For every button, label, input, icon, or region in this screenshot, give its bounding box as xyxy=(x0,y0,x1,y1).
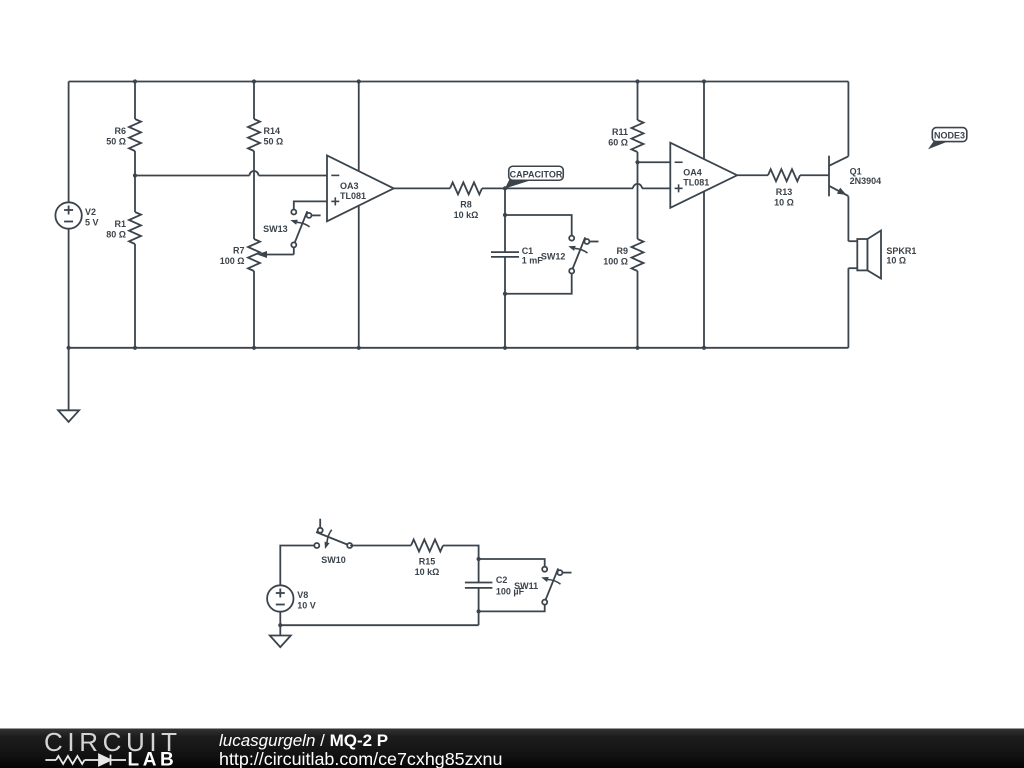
switch SW13 xyxy=(290,210,320,248)
svg-text:10 kΩ: 10 kΩ xyxy=(454,210,479,220)
svg-text:5 V: 5 V xyxy=(85,217,99,227)
op-amp OA3 xyxy=(327,156,394,222)
svg-text:V8: V8 xyxy=(297,590,308,600)
junction R11/R9 divider node xyxy=(635,160,639,164)
wire OA3 out xyxy=(394,187,450,189)
node CAPACITOR junction xyxy=(503,186,507,190)
resistor R9 xyxy=(632,239,644,271)
wire ground stub xyxy=(68,348,70,411)
wire R6/R1 rail xyxy=(134,82,136,120)
wire OA4 out xyxy=(737,174,768,176)
svg-text:C2: C2 xyxy=(496,575,508,585)
voltage source V2 xyxy=(55,202,81,228)
junction C1 bottom xyxy=(503,292,507,296)
svg-text:NODE3: NODE3 xyxy=(934,131,965,141)
junction bottom rail / C1 branch xyxy=(503,346,507,350)
capacitor C2 xyxy=(465,582,493,584)
junction top rail / R14 rail xyxy=(252,79,256,83)
junction bottom rail / R7 rail xyxy=(252,346,256,350)
svg-text:LAB: LAB xyxy=(128,750,178,768)
svg-text:50 Ω: 50 Ω xyxy=(106,137,126,147)
ground 2 xyxy=(270,636,291,648)
svg-text:CAPACITOR: CAPACITOR xyxy=(510,169,563,179)
svg-text:R6: R6 xyxy=(114,126,126,136)
wire SW13 to OA3 plus xyxy=(294,201,327,209)
logo resistor-diode art xyxy=(45,755,126,766)
svg-text:80 Ω: 80 Ω xyxy=(106,229,126,239)
svg-text:lucasgurgeln / MQ-2 P: lucasgurgeln / MQ-2 P xyxy=(219,731,388,750)
junction top rail / OA4 rail xyxy=(702,79,706,83)
switch SW11 xyxy=(541,567,571,605)
svg-text:V2: V2 xyxy=(85,207,96,217)
speaker SPKR1 xyxy=(848,240,857,242)
svg-text:R11: R11 xyxy=(612,127,628,137)
junction bottom rail / OA3 rail xyxy=(357,346,361,350)
svg-text:OA3: OA3 xyxy=(340,181,359,191)
wire to OA4 minus xyxy=(638,161,671,163)
svg-text:R9: R9 xyxy=(616,246,628,256)
svg-text:SW11: SW11 xyxy=(514,581,538,591)
wire bottom return xyxy=(280,624,478,626)
node NODE3 flag xyxy=(928,128,967,150)
wire ground stub 2 xyxy=(279,625,281,635)
wire left rail lower xyxy=(68,229,70,348)
switch SW10 xyxy=(314,519,352,549)
wire node to OA4 plus xyxy=(505,187,633,189)
wire C1 branch xyxy=(504,188,506,252)
svg-text:R14: R14 xyxy=(264,126,281,136)
junction top rail / R6 rail xyxy=(133,79,137,83)
svg-text:10 V: 10 V xyxy=(297,600,316,610)
resistor R15 xyxy=(411,540,443,552)
switch SW12 xyxy=(568,236,598,274)
svg-text:OA4: OA4 xyxy=(683,168,702,178)
wire rail through OA3 xyxy=(358,82,360,348)
junction bottom rail / V2 rail xyxy=(67,346,71,350)
svg-text:R8: R8 xyxy=(460,199,472,209)
svg-text:10 kΩ: 10 kΩ xyxy=(415,567,440,577)
wire R15 to C2 xyxy=(443,546,479,583)
svg-text:TL081: TL081 xyxy=(683,178,709,188)
junction bottom rail / OA4 rail xyxy=(702,346,706,350)
wire R8 to node xyxy=(482,187,505,189)
svg-text:100 Ω: 100 Ω xyxy=(220,256,245,266)
wire R14/R7 rail xyxy=(253,82,255,120)
junction bottom rail / R9 rail xyxy=(635,346,639,350)
junction C1 top xyxy=(503,213,507,217)
junction C2 bottom xyxy=(477,609,481,613)
wire R13 to Q1 xyxy=(800,174,829,176)
wire SW11 loop xyxy=(479,559,545,569)
svg-text:50 Ω: 50 Ω xyxy=(264,137,284,147)
svg-text:TL081: TL081 xyxy=(340,191,366,201)
wire mid (to OA3 minus) xyxy=(135,175,250,177)
svg-text:R13: R13 xyxy=(776,187,793,197)
svg-text:SW12: SW12 xyxy=(541,251,566,261)
resistor R11 xyxy=(632,120,644,152)
svg-text:SW13: SW13 xyxy=(263,224,288,234)
svg-text:R15: R15 xyxy=(419,557,436,567)
junction top rail / OA3 rail xyxy=(357,79,361,83)
svg-text:10 Ω: 10 Ω xyxy=(774,197,794,207)
transistor Q1 xyxy=(828,156,830,197)
resistor R1 xyxy=(129,212,141,244)
op-amp OA4 xyxy=(670,143,737,208)
resistor R14 xyxy=(248,119,260,151)
junction bottom rail / R1 rail xyxy=(133,346,137,350)
svg-text:C1: C1 xyxy=(522,246,534,256)
wire R7 wiper xyxy=(266,254,294,256)
junction V8 ground node xyxy=(278,623,282,627)
resistor R8 xyxy=(450,182,482,194)
junction C2 top xyxy=(477,557,481,561)
svg-text:100 Ω: 100 Ω xyxy=(603,257,628,267)
node CAPACITOR flag xyxy=(505,166,563,188)
ground xyxy=(58,410,79,422)
wire left rail upper xyxy=(68,82,70,203)
svg-text:R7: R7 xyxy=(233,246,245,256)
wire SW12 loop xyxy=(505,215,572,238)
wire SW10 to R15 xyxy=(350,545,411,547)
svg-text:2N3904: 2N3904 xyxy=(850,176,882,186)
wire bottom rail xyxy=(69,347,849,349)
wire rail through OA4 xyxy=(703,82,705,348)
junction R6/R1 divider node xyxy=(133,173,137,177)
svg-text:60 Ω: 60 Ω xyxy=(608,138,628,148)
wire top rail xyxy=(69,81,849,83)
svg-text:http://circuitlab.com/ce7cxhg8: http://circuitlab.com/ce7cxhg85zxnu xyxy=(219,749,502,768)
resistor R7 (pot) xyxy=(248,239,260,271)
svg-text:R1: R1 xyxy=(114,219,126,229)
svg-text:10 Ω: 10 Ω xyxy=(886,256,906,266)
svg-text:SW10: SW10 xyxy=(321,555,346,565)
resistor R13 xyxy=(768,169,800,181)
capacitor C1 xyxy=(491,251,519,253)
junction top rail / R11 rail xyxy=(635,79,639,83)
resistor R6 xyxy=(129,119,141,151)
wire R11/R9 rail xyxy=(637,82,639,121)
wire V8 top xyxy=(280,546,317,586)
voltage source V8 xyxy=(267,585,293,611)
